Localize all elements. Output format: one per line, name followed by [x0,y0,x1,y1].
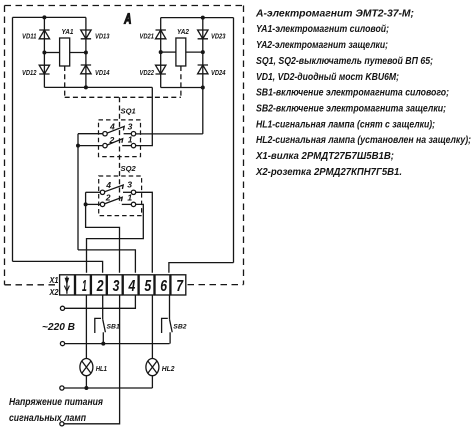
wire 220V second line [65,343,170,345]
wire SQ2 pin2 to left bus [86,203,101,205]
junction mid left bridge L [42,51,46,55]
svg-text:SB2-включение электромагнита з: SB2-включение электромагнита защелки; [256,104,446,115]
wire right bridge bottom rail [161,87,203,89]
svg-text:SB1-включение электромагнита с: SB1-включение электромагнита силового; [256,88,449,99]
electromagnet coil YA1 [60,38,70,66]
svg-text:VD14: VD14 [95,68,110,77]
svg-text:SQ1, SQ2-выключатель путевой В: SQ1, SQ2-выключатель путевой ВП 65; [256,56,433,67]
svg-text:Напряжение питания: Напряжение питания [9,396,103,408]
wire X pin6 down to SB2 [169,295,171,319]
wire right bridge mid left [161,51,176,53]
svg-text:3: 3 [128,121,133,131]
mechanical link YA1 armature (dashed) [64,66,66,97]
junction SQ1 left bus [76,144,80,148]
wire X pin2 down to SB1 [102,295,104,319]
wire left bridge left vertical [43,17,45,87]
wire SQ1 pin3 to right bridge return [136,133,203,135]
switch SQ2 dashed box [99,176,142,216]
wire X pin3 down to lamp return [64,295,120,424]
terminal circle lamp supply top [60,386,64,390]
junction HL1 to lamp supply line [84,386,88,390]
junction top rail right bridge [201,16,205,20]
wire SQ1 left bus down to X pin4 row [77,134,79,250]
diode VD14 [81,65,91,74]
svg-text:2: 2 [109,135,115,145]
enclosure A dashed boundary box [5,6,244,285]
svg-text:1: 1 [82,278,87,295]
svg-text:YA2-электромагнит защелки;: YA2-электромагнит защелки; [256,40,388,51]
wire SQ1 pin4 to left bus [78,133,103,135]
svg-text:YA1-электромагнит силовой;: YA1-электромагнит силовой; [256,24,389,35]
switch SQ1 dashed box [99,120,141,157]
electromagnet coil YA2 [176,38,186,66]
wire left bridge bottom rail [44,86,152,88]
wire X pin4 down to 220V line [65,295,136,308]
svg-text:1: 1 [127,192,132,202]
svg-text:X1-вилка 2РМДТ27Б7Ш5В1В;: X1-вилка 2РМДТ27Б7Ш5В1В; [255,151,394,162]
terminal circle lamp supply bottom [60,422,64,426]
wire SQ2 left bus to X pin3 [86,192,120,272]
svg-text:2: 2 [96,278,104,295]
switch SQ1 contact 4-3 [103,126,136,135]
svg-text:HL2-сигнальная лампа (установл: HL2-сигнальная лампа (установлен на заще… [256,135,471,146]
svg-text:X2-розетка 2РМД27КПН7Г5В1.: X2-розетка 2РМД27КПН7Г5В1. [255,167,402,178]
mechanical link YA2 armature (dashed) [180,66,182,97]
wire X pin2 row [13,261,103,272]
svg-text:1: 1 [128,135,133,145]
svg-text:3: 3 [113,278,120,295]
svg-text:X2: X2 [49,288,59,297]
wire left bridge mid right [70,52,86,54]
junction SB1 to 220V line [101,342,105,346]
diode VD21 [156,30,166,39]
svg-text:сигнальных ламп: сигнальных ламп [9,412,86,424]
lamp HL1 [80,359,93,389]
diode VD12 [39,65,49,74]
svg-text:YA1: YA1 [62,27,74,36]
junction bottom rail left bridge [84,85,88,89]
mechanical link to SQ1/SQ2 (dashed vertical) [119,97,121,204]
wire X pin6 row [169,263,234,273]
svg-text:~220 В: ~220 В [42,321,75,333]
wire right bridge right vertical (extends to SQ1 pin3 row) [202,18,204,134]
terminal circle 220V neutral [60,342,64,346]
wire SQ1 pin2 to left bus [78,145,103,147]
diode VD22 [156,65,166,74]
diode VD24 [198,65,208,74]
diode VD13 [81,30,91,39]
svg-text:4: 4 [128,278,136,295]
svg-text:HL1: HL1 [96,364,107,373]
pushbutton SB1 [95,318,106,343]
svg-text:VD11: VD11 [22,32,37,41]
junction bottom rail right bridge [201,86,205,90]
legend text block [255,8,471,178]
svg-text:VD21: VD21 [140,32,155,41]
junction mid right bridge L [159,50,163,54]
wire SQ2 pin4 to left bus [86,191,101,193]
svg-text:VD24: VD24 [211,68,226,77]
connector X1/X2 terminal strip [60,275,186,295]
switch SQ1 contact 2-1 [103,139,136,148]
svg-text:А-электромагнит ЭМТ2-37-М;: А-электромагнит ЭМТ2-37-М; [255,8,414,19]
wire X pin4 row [78,250,135,273]
wire right bridge mid right [186,51,203,53]
wire SQ2 pin3 to X pin5 [136,192,153,272]
svg-text:5: 5 [144,278,152,295]
wire top rail left bridge [13,16,86,18]
diode VD23 [198,30,208,39]
switch SQ2 contact 2-1 [100,197,135,206]
wire left bridge right vertical [85,17,87,87]
svg-text:4: 4 [105,180,111,190]
svg-text:3: 3 [127,180,132,190]
svg-text:6: 6 [160,278,167,295]
junction mid right bridge R [201,50,205,54]
svg-text:SQ1: SQ1 [121,107,136,116]
wire SQ1 pin1 to left bridge return [136,87,153,145]
svg-text:VD22: VD22 [140,68,155,77]
svg-text:SQ2: SQ2 [121,164,137,173]
wire SQ2 pin1 to X pin1 [87,204,144,272]
wire left supply drop (to X pin 2 row) [12,17,14,261]
svg-text:7: 7 [176,278,184,295]
wire X pin5 to lamp HL2 [151,295,153,358]
junction top rail left [42,15,46,19]
junction SQ2 left bus [84,202,88,206]
junction mid left bridge R [84,51,88,55]
svg-text:HL2: HL2 [162,364,175,373]
terminal circle 220V phase [60,306,64,310]
svg-text:HL1-сигнальная лампа (снят с з: HL1-сигнальная лампа (снят с защелки); [256,119,435,130]
svg-text:VD23: VD23 [211,32,226,41]
wire top rail right bridge [161,17,234,19]
wire signal lamp supply line [64,387,152,389]
wire right bridge left vertical [160,18,162,88]
svg-text:YA2: YA2 [177,27,190,36]
lamp HL2 [146,359,159,389]
svg-text:SB2: SB2 [173,324,186,331]
mechanical link horizontal (dashed) [65,96,181,98]
svg-text:VD12: VD12 [22,68,37,77]
svg-text:X1: X1 [49,276,59,285]
switch SQ2 contact 4-3 [100,185,135,195]
svg-text:SB1: SB1 [107,324,120,331]
wire left bridge mid left [44,52,59,54]
svg-text:VD1, VD2-диодный мост KBU6M;: VD1, VD2-диодный мост KBU6M; [256,72,399,83]
diode VD11 [39,30,49,39]
wire X pin1 to lamp HL1 [85,295,87,358]
svg-text:А: А [124,10,132,27]
wire right supply drop (to X pin 6) [233,18,235,263]
svg-text:VD13: VD13 [95,32,110,41]
svg-text:4: 4 [109,122,115,132]
svg-text:2: 2 [105,193,111,203]
pushbutton SB2 [162,318,173,343]
connector keying arrow symbol [64,276,69,294]
